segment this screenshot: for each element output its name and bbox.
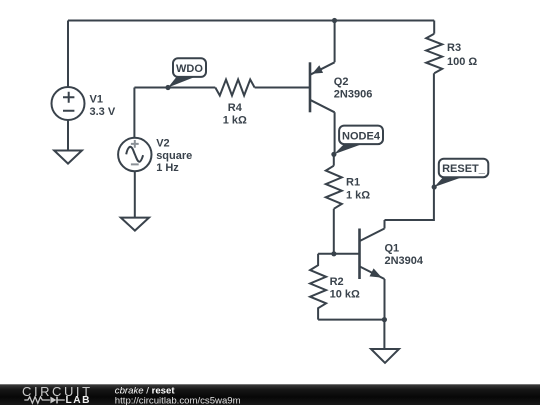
wire V1 bottom [67, 120, 69, 151]
wire base Q1 [318, 253, 359, 255]
svg-text:RESET_: RESET_ [442, 163, 486, 175]
wire R3 top [433, 21, 435, 34]
wire top rail [68, 20, 434, 22]
node label NODE4 [334, 126, 383, 155]
svg-text:R1: R1 [346, 176, 360, 188]
svg-text:V2: V2 [156, 138, 169, 150]
labels R2 [330, 276, 360, 301]
svg-text:http://circuitlab.com/cs5wa9m: http://circuitlab.com/cs5wa9m [115, 395, 241, 405]
junction node WDO [165, 85, 170, 90]
transistor Q2 emitter arrow [313, 66, 322, 73]
labels Q1 [385, 243, 424, 267]
svg-text:R3: R3 [447, 42, 461, 54]
ground (V2) [121, 218, 149, 231]
resistor R3 [426, 34, 442, 73]
footer text [115, 385, 241, 405]
wire V1 top [67, 21, 69, 88]
svg-text:1 kΩ: 1 kΩ [346, 190, 370, 202]
ground (V1) [54, 151, 82, 164]
junction node NODE4 [331, 152, 336, 157]
svg-text:Q1: Q1 [385, 243, 400, 255]
svg-text:1 Hz: 1 Hz [156, 162, 179, 174]
wire V2 top [133, 88, 135, 138]
resistor R4 [215, 80, 254, 96]
svg-text:2N3906: 2N3906 [334, 89, 373, 101]
svg-text:V1: V1 [90, 94, 103, 106]
svg-text:2N3904: 2N3904 [385, 255, 424, 267]
labels R4 [223, 102, 247, 126]
svg-text:R2: R2 [330, 276, 344, 288]
transistor Q1 emitter arrow [370, 269, 380, 277]
transistor Q1 collector [360, 220, 385, 241]
node label WDO [168, 58, 206, 87]
wire Q1 emitter to ground [383, 320, 385, 349]
wire R2 bottom [318, 319, 384, 321]
CircuitLab logo [22, 384, 93, 405]
svg-text:LAB: LAB [66, 395, 91, 405]
footer bar [0, 384, 540, 405]
wire V2 bottom [134, 171, 136, 217]
transistor Q2 base bar [309, 62, 312, 112]
resistor R2 [310, 254, 326, 320]
svg-text:NODE4: NODE4 [342, 130, 381, 142]
junction node RESET_ [432, 184, 437, 189]
labels V2 [156, 138, 192, 174]
junction R1 / R2 / Q1 base [331, 251, 336, 256]
labels R1 [346, 176, 370, 201]
transistor Q1 emitter [360, 266, 385, 319]
wire R4 to Q2 base [255, 87, 310, 89]
wire WDO horizontal [134, 87, 215, 89]
labels Q2 [334, 76, 373, 101]
svg-text:10 kΩ: 10 kΩ [330, 289, 360, 301]
transistor Q2 emitter and wire to top rail [310, 21, 335, 75]
svg-text:100 Ω: 100 Ω [447, 56, 477, 68]
node label RESET_ [434, 159, 488, 187]
junction R2 / Q1 emitter / ground [382, 317, 387, 322]
wire R1 top [333, 154, 335, 165]
wire R1 bottom [333, 209, 335, 254]
labels R3 [447, 42, 477, 68]
wire Q1 collector to R3 [385, 73, 434, 220]
labels V1 [90, 94, 116, 118]
svg-text:1 kΩ: 1 kΩ [223, 114, 247, 126]
svg-text:R4: R4 [228, 102, 243, 114]
voltage source V2 [118, 138, 151, 171]
junction top rail / Q2 emitter [332, 18, 337, 23]
svg-text:3.3 V: 3.3 V [90, 106, 116, 118]
voltage source V1 [52, 87, 85, 120]
resistor R1 [326, 166, 342, 209]
svg-text:WDO: WDO [176, 63, 203, 75]
svg-text:square: square [156, 150, 192, 162]
ground (Q1) [371, 349, 399, 363]
svg-text:Q2: Q2 [334, 76, 349, 88]
transistor Q2 collector and wire to NODE4 [310, 100, 335, 155]
transistor Q1 base bar [358, 229, 361, 280]
